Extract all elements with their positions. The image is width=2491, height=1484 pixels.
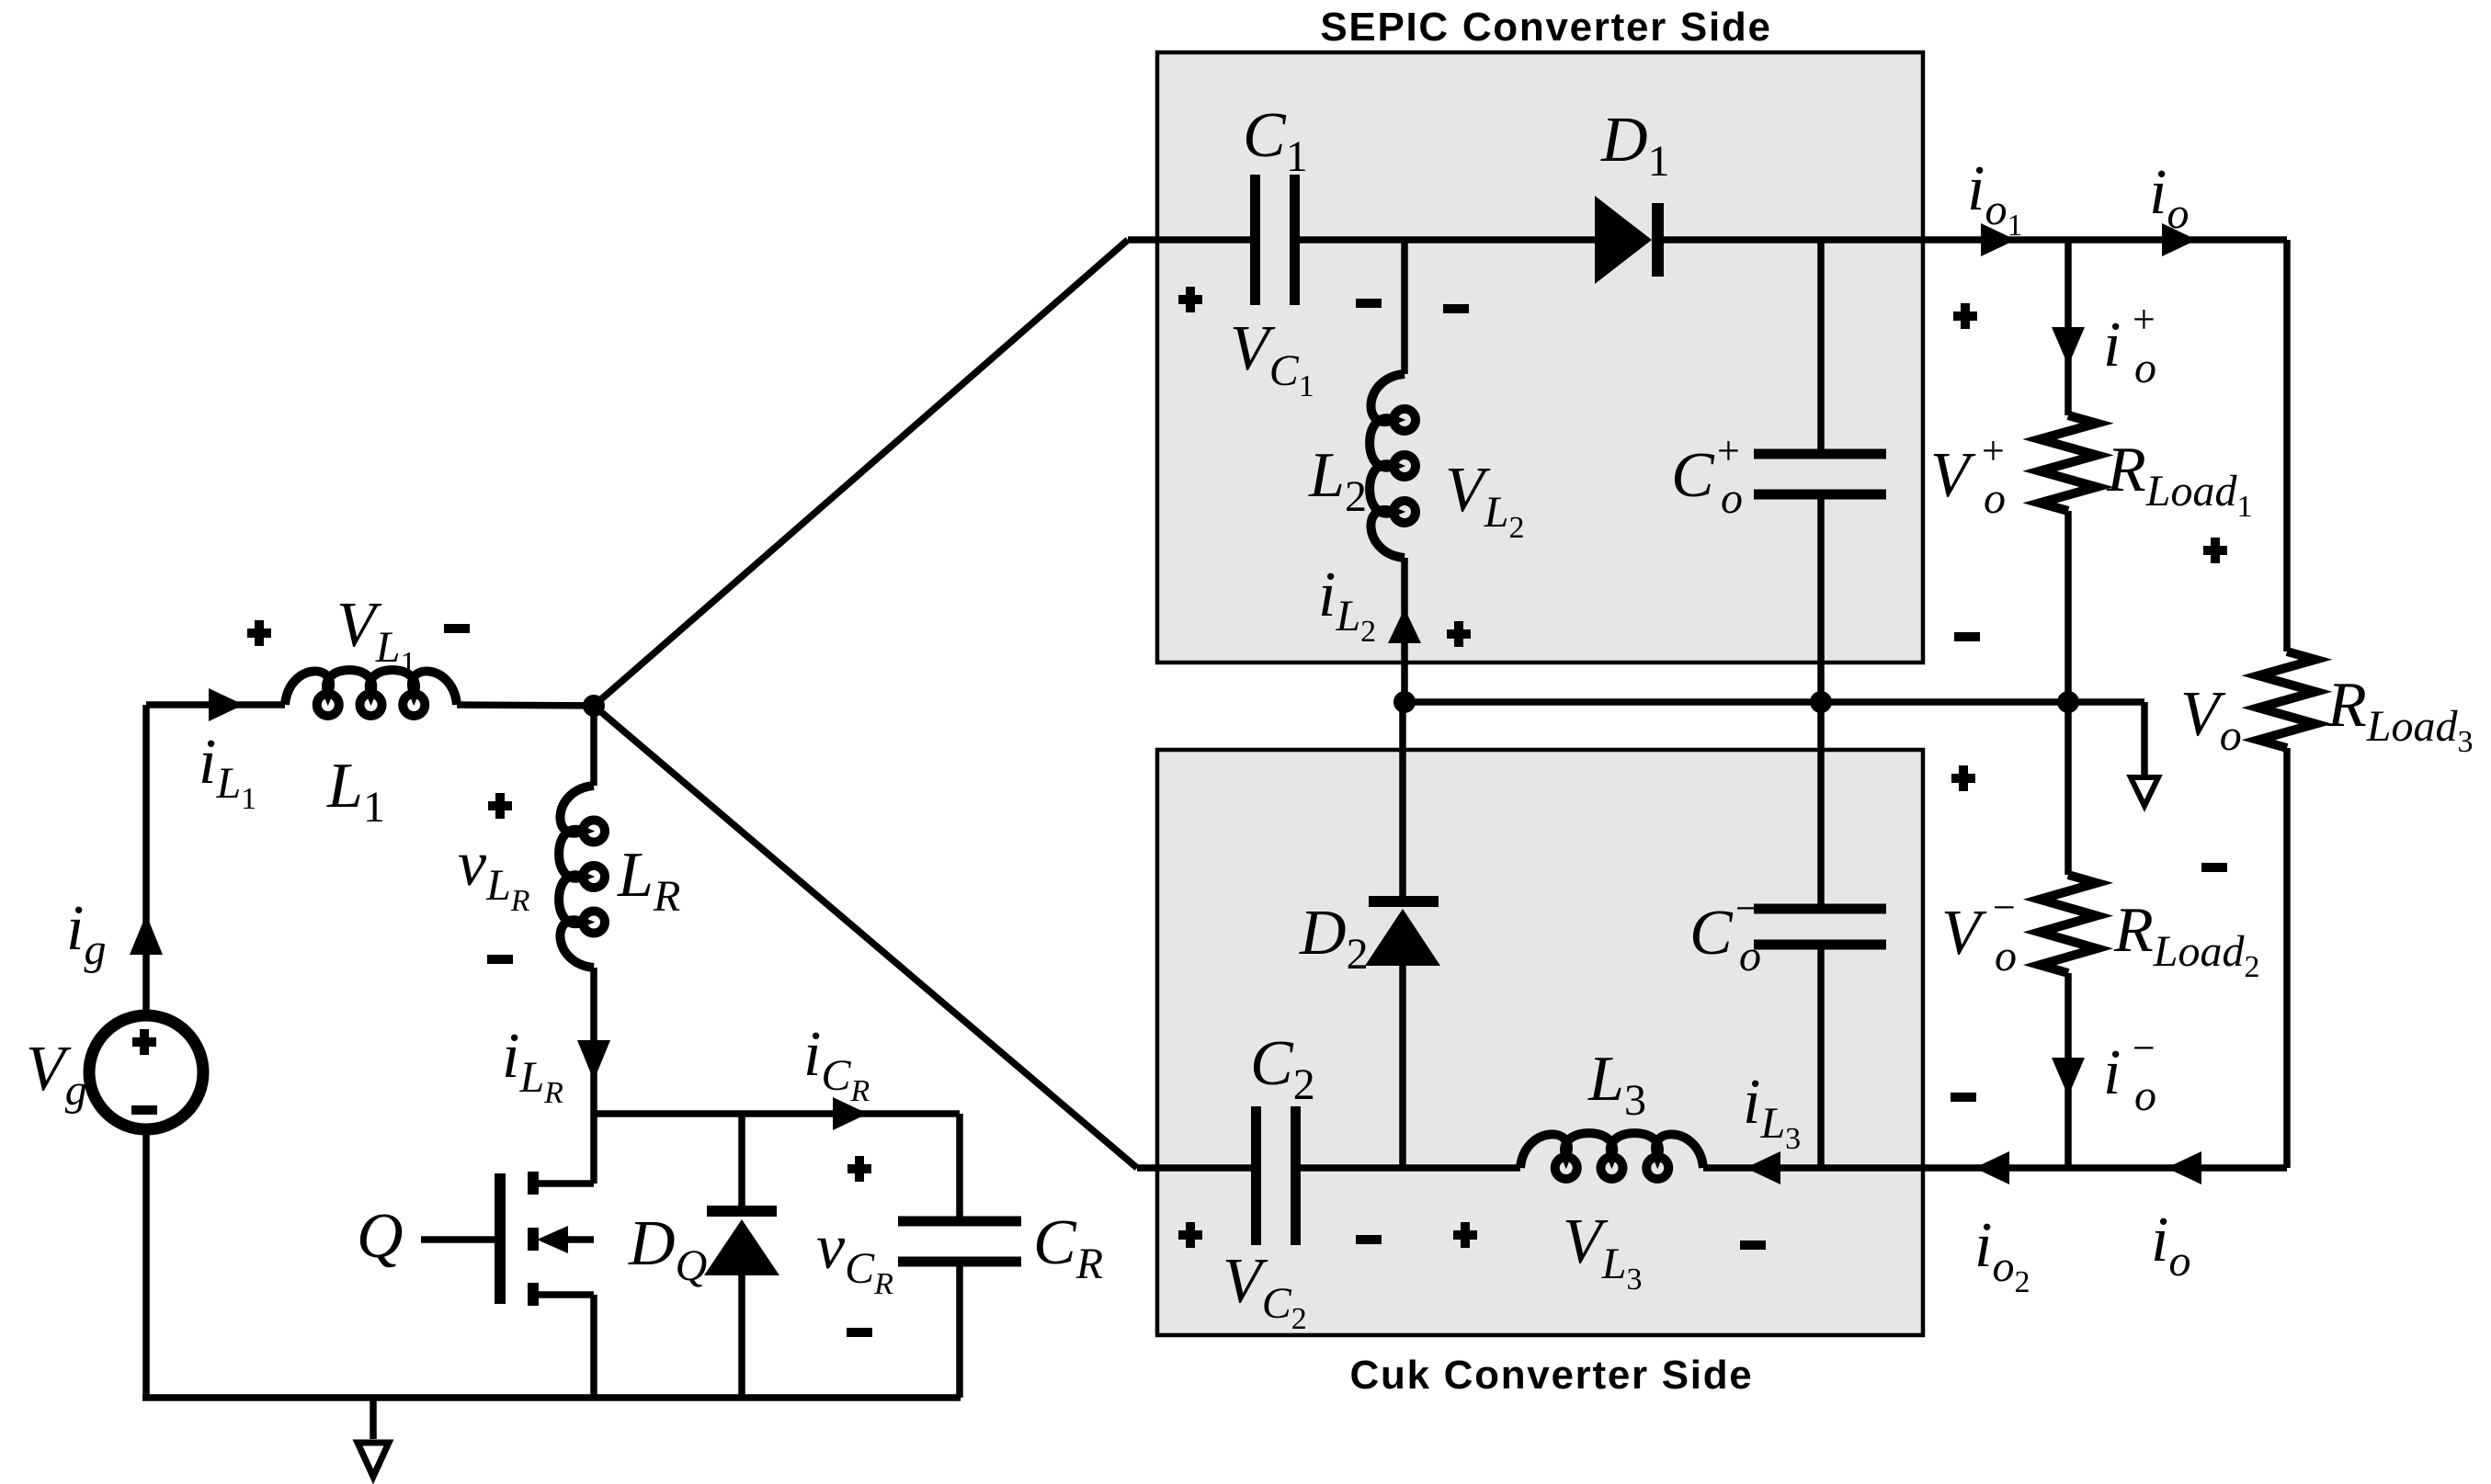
svg-text:i: i bbox=[2103, 310, 2121, 380]
svg-text:o: o bbox=[1721, 474, 1743, 523]
svg-text:o: o bbox=[1739, 932, 1761, 980]
svg-text:C: C bbox=[1671, 440, 1715, 511]
svg-text:+: + bbox=[1717, 428, 1740, 473]
svg-text:+: + bbox=[1982, 428, 2005, 473]
svg-text:o: o bbox=[2134, 344, 2156, 392]
svg-text:−: − bbox=[1993, 885, 2016, 930]
svg-text:o: o bbox=[2134, 1071, 2156, 1120]
svg-text:Q: Q bbox=[357, 1201, 404, 1272]
svg-text:V: V bbox=[1941, 898, 1987, 969]
svg-text:−: − bbox=[2133, 1025, 2155, 1071]
svg-text:Cuk Converter Side: Cuk Converter Side bbox=[1350, 1353, 1754, 1398]
svg-text:+: + bbox=[2133, 297, 2155, 342]
svg-text:i: i bbox=[2103, 1037, 2121, 1108]
svg-text:C: C bbox=[1689, 898, 1734, 969]
svg-text:o: o bbox=[1995, 932, 2017, 980]
svg-text:SEPIC Converter Side: SEPIC Converter Side bbox=[1320, 5, 1771, 50]
svg-text:V: V bbox=[1930, 440, 1976, 511]
svg-text:o: o bbox=[1984, 474, 2006, 523]
svg-text:−: − bbox=[1735, 886, 1758, 931]
